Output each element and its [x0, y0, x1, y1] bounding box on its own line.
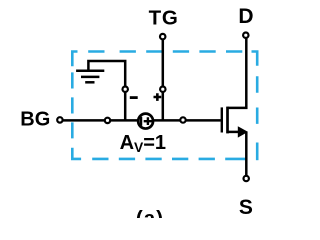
label minus sign — [130, 96, 138, 99]
dashed boundary box top-left corner — [72, 52, 77, 67]
svg-text:S: S — [239, 196, 253, 218]
node S terminal — [244, 176, 249, 181]
dashed boundary box right edge — [256, 76, 259, 124]
transistor M1 source arrow — [238, 126, 248, 137]
dashed boundary box bottom edge — [92, 158, 246, 161]
dashed boundary box bottom-left corner — [72, 148, 81, 159]
dashed boundary box left edge — [71, 72, 74, 138]
node gate junction — [180, 117, 185, 122]
node D terminal — [243, 33, 248, 38]
dashed boundary box top edge — [88, 50, 242, 53]
transistor M1 gate bar — [221, 107, 223, 132]
wire drain: channel to D terminal — [228, 39, 247, 108]
dashed boundary box bottom-right corner — [256, 143, 259, 161]
node BG terminal — [57, 117, 62, 122]
node minus sense — [123, 87, 128, 92]
svg-text:BG: BG — [20, 109, 50, 131]
source U1 minus bar — [140, 117, 143, 126]
wire source: corner down to S terminal — [245, 132, 248, 176]
wire source horizontal from channel — [228, 131, 241, 134]
wire ground L-tap to minus sense line — [88, 61, 125, 120]
svg-text:TG: TG — [149, 6, 179, 29]
node plus sense — [160, 87, 165, 92]
source U1 plus sign — [144, 117, 152, 125]
svg-text:(a): (a) — [136, 207, 164, 218]
ground — [76, 71, 104, 83]
wire TG vertical line — [162, 38, 165, 120]
wire BG main horizontal rail — [62, 119, 221, 122]
source U1 circle Av=1 — [138, 114, 153, 129]
svg-text:AV=1: AV=1 — [120, 132, 166, 155]
node junction on rail — [105, 118, 110, 123]
svg-text:D: D — [238, 5, 253, 28]
label plus sign — [154, 93, 162, 101]
dashed boundary box top-right corner — [252, 52, 258, 66]
node TG terminal — [160, 34, 165, 39]
transistor M1 channel bar — [226, 107, 229, 134]
